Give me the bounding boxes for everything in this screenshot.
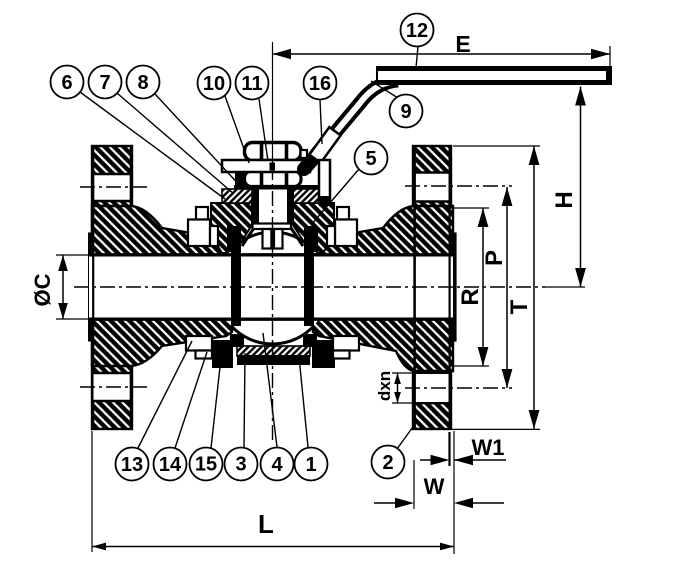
callout balloon 13 bbox=[116, 448, 149, 481]
body stud bolt top-left bbox=[186, 207, 359, 359]
callout balloon 15 bbox=[190, 448, 223, 481]
left bonnet hatch bbox=[211, 203, 252, 253]
callout balloon 11 bbox=[236, 67, 269, 100]
svg-text:R: R bbox=[457, 288, 484, 305]
right flange bolt centerline bottom bbox=[405, 387, 512, 389]
svg-text:T: T bbox=[506, 299, 533, 314]
callout balloon 6 bbox=[51, 66, 84, 99]
callout balloon 7 bbox=[89, 66, 122, 99]
right bonnet hatch bbox=[293, 203, 334, 253]
ball slot white bbox=[263, 229, 283, 249]
bore bottom line bbox=[89, 318, 457, 321]
ball slot line right bbox=[291, 228, 303, 246]
leader item 2 bbox=[397, 424, 415, 449]
handle lower bend solid bbox=[304, 152, 318, 169]
right flange plate bbox=[413, 146, 451, 429]
svg-text:13: 13 bbox=[121, 454, 143, 476]
callout balloon 8 bbox=[127, 66, 160, 99]
top-left corner wedge bbox=[227, 226, 241, 252]
left flange bolt centerline top bbox=[80, 186, 150, 188]
leader item 14 bbox=[175, 352, 207, 448]
callout balloon 1 bbox=[295, 448, 328, 481]
stem tang lower tab bbox=[270, 229, 275, 249]
callout balloon 12 bbox=[401, 14, 434, 47]
horizontal pipe centerline bbox=[74, 286, 545, 288]
svg-text:16: 16 bbox=[309, 73, 331, 95]
svg-text:11: 11 bbox=[241, 73, 262, 95]
callout balloon 4 bbox=[261, 448, 294, 481]
leader item 11 bbox=[259, 99, 268, 161]
body stud bolt top-right bbox=[337, 207, 349, 220]
svg-text:E: E bbox=[455, 31, 470, 57]
leader item 12 bbox=[416, 47, 418, 69]
dimension H bbox=[575, 87, 586, 288]
left flange plate bbox=[92, 146, 132, 429]
leader item 8 bbox=[155, 94, 243, 189]
vertical stem centerline bbox=[272, 42, 274, 165]
stop bracket item5 bbox=[319, 160, 330, 201]
top hex nut bbox=[245, 143, 308, 161]
dimension OC bbox=[56, 255, 90, 319]
svg-text:3: 3 bbox=[235, 454, 246, 476]
body stud bolt bottom-right bbox=[333, 336, 359, 351]
bore white channel bbox=[89, 257, 453, 318]
svg-text:ØC: ØC bbox=[30, 273, 55, 306]
stem wall left bbox=[252, 189, 259, 226]
callout balloon 16 bbox=[304, 67, 337, 100]
black solid details bbox=[212, 171, 335, 368]
leader item 16 bbox=[320, 100, 322, 144]
top-right corner wedge bbox=[304, 226, 318, 252]
dimension P bbox=[502, 187, 513, 388]
svg-text:dxn: dxn bbox=[375, 371, 394, 401]
top-right body band bbox=[313, 206, 453, 255]
handle sleeve collar bbox=[309, 127, 340, 163]
callout balloon 14 bbox=[154, 448, 187, 481]
handle rod diagonal casing bbox=[313, 81, 398, 160]
leader item 6 bbox=[80, 92, 225, 199]
band under ball bbox=[237, 355, 310, 365]
dimension L bbox=[92, 431, 454, 554]
gland hex nut bbox=[234, 171, 321, 190]
bottom boss right bbox=[312, 340, 335, 368]
stem wall right bbox=[287, 189, 294, 226]
ball bottom arc bbox=[231, 326, 314, 344]
ball white blank bbox=[217, 232, 329, 344]
ball slot line left bbox=[242, 228, 254, 246]
centerlines bbox=[74, 42, 585, 443]
dimension W1 bbox=[420, 432, 506, 466]
svg-text:L: L bbox=[258, 509, 274, 539]
dimension dxn bbox=[392, 373, 414, 403]
stem group bbox=[242, 189, 303, 249]
bore lines bbox=[89, 255, 457, 319]
body stud bolt bottom-left bbox=[186, 336, 212, 351]
svg-text:W1: W1 bbox=[472, 435, 505, 460]
leader item 1 bbox=[299, 357, 308, 447]
svg-text:12: 12 bbox=[406, 20, 428, 42]
lever flat bar bbox=[222, 160, 310, 172]
svg-text:14: 14 bbox=[159, 454, 182, 476]
left raised face bbox=[89, 233, 94, 341]
body hatched shapes bbox=[89, 146, 457, 429]
leader item 5 bbox=[311, 169, 359, 225]
right seat bbox=[304, 249, 314, 326]
svg-text:7: 7 bbox=[99, 72, 110, 94]
callout balloon 3 bbox=[225, 448, 258, 481]
top-left body band bbox=[92, 206, 232, 255]
ball outline arcs bbox=[231, 232, 314, 344]
leader item 15 bbox=[211, 358, 221, 448]
bolt holes left flange bbox=[92, 146, 451, 429]
left flange bolt centerline bottom bbox=[80, 386, 150, 388]
dimension E bbox=[273, 46, 611, 66]
ball top arc bbox=[231, 232, 314, 250]
svg-text:15: 15 bbox=[195, 454, 217, 476]
bottom-right body band bbox=[313, 319, 453, 371]
bore top line bbox=[89, 253, 457, 256]
right flange bolt centerline top bbox=[405, 185, 512, 187]
svg-text:2: 2 bbox=[382, 452, 393, 474]
svg-text:P: P bbox=[481, 250, 508, 266]
svg-text:4: 4 bbox=[271, 454, 283, 476]
svg-text:H: H bbox=[551, 191, 578, 208]
bottom-left corner wedge bbox=[230, 334, 244, 347]
dimension R bbox=[450, 208, 489, 366]
svg-text:8: 8 bbox=[137, 72, 148, 94]
left seat bbox=[231, 249, 241, 326]
svg-text:W: W bbox=[424, 474, 445, 499]
handle bar horizontal bbox=[376, 66, 612, 85]
leader item 10 bbox=[225, 96, 249, 163]
bottom-right corner wedge bbox=[303, 334, 317, 347]
dimension T bbox=[452, 146, 540, 429]
bolt holes right flange bbox=[415, 173, 450, 202]
handle rod white core bbox=[315, 81, 402, 158]
bottom boss left bbox=[212, 340, 233, 368]
leader item 9 bbox=[371, 81, 398, 98]
dimension W bbox=[374, 460, 504, 509]
svg-text:5: 5 bbox=[365, 148, 376, 170]
seat ring under ball bbox=[237, 346, 310, 356]
gland blob left bbox=[235, 171, 246, 189]
leader item 3 bbox=[244, 353, 245, 448]
stem tang plate bbox=[253, 224, 292, 230]
callout balloon 9 bbox=[390, 95, 423, 128]
centerline extension to H bbox=[545, 286, 585, 288]
callout balloon 10 bbox=[198, 67, 231, 100]
callout balloon 5 bbox=[355, 142, 388, 175]
svg-text:10: 10 bbox=[203, 73, 225, 95]
right gland packing bbox=[293, 189, 323, 203]
left gland packing bbox=[222, 189, 252, 203]
right raised face bbox=[451, 233, 456, 341]
bottom-left body band bbox=[92, 319, 232, 366]
leader item 7 bbox=[117, 93, 234, 194]
callout balloon 2 bbox=[372, 446, 405, 479]
leader item 13 bbox=[138, 341, 192, 448]
leader item 4 bbox=[263, 333, 277, 447]
svg-text:9: 9 bbox=[400, 101, 411, 123]
svg-text:6: 6 bbox=[61, 72, 72, 94]
svg-text:1: 1 bbox=[305, 454, 316, 476]
stem white core bbox=[259, 189, 287, 226]
